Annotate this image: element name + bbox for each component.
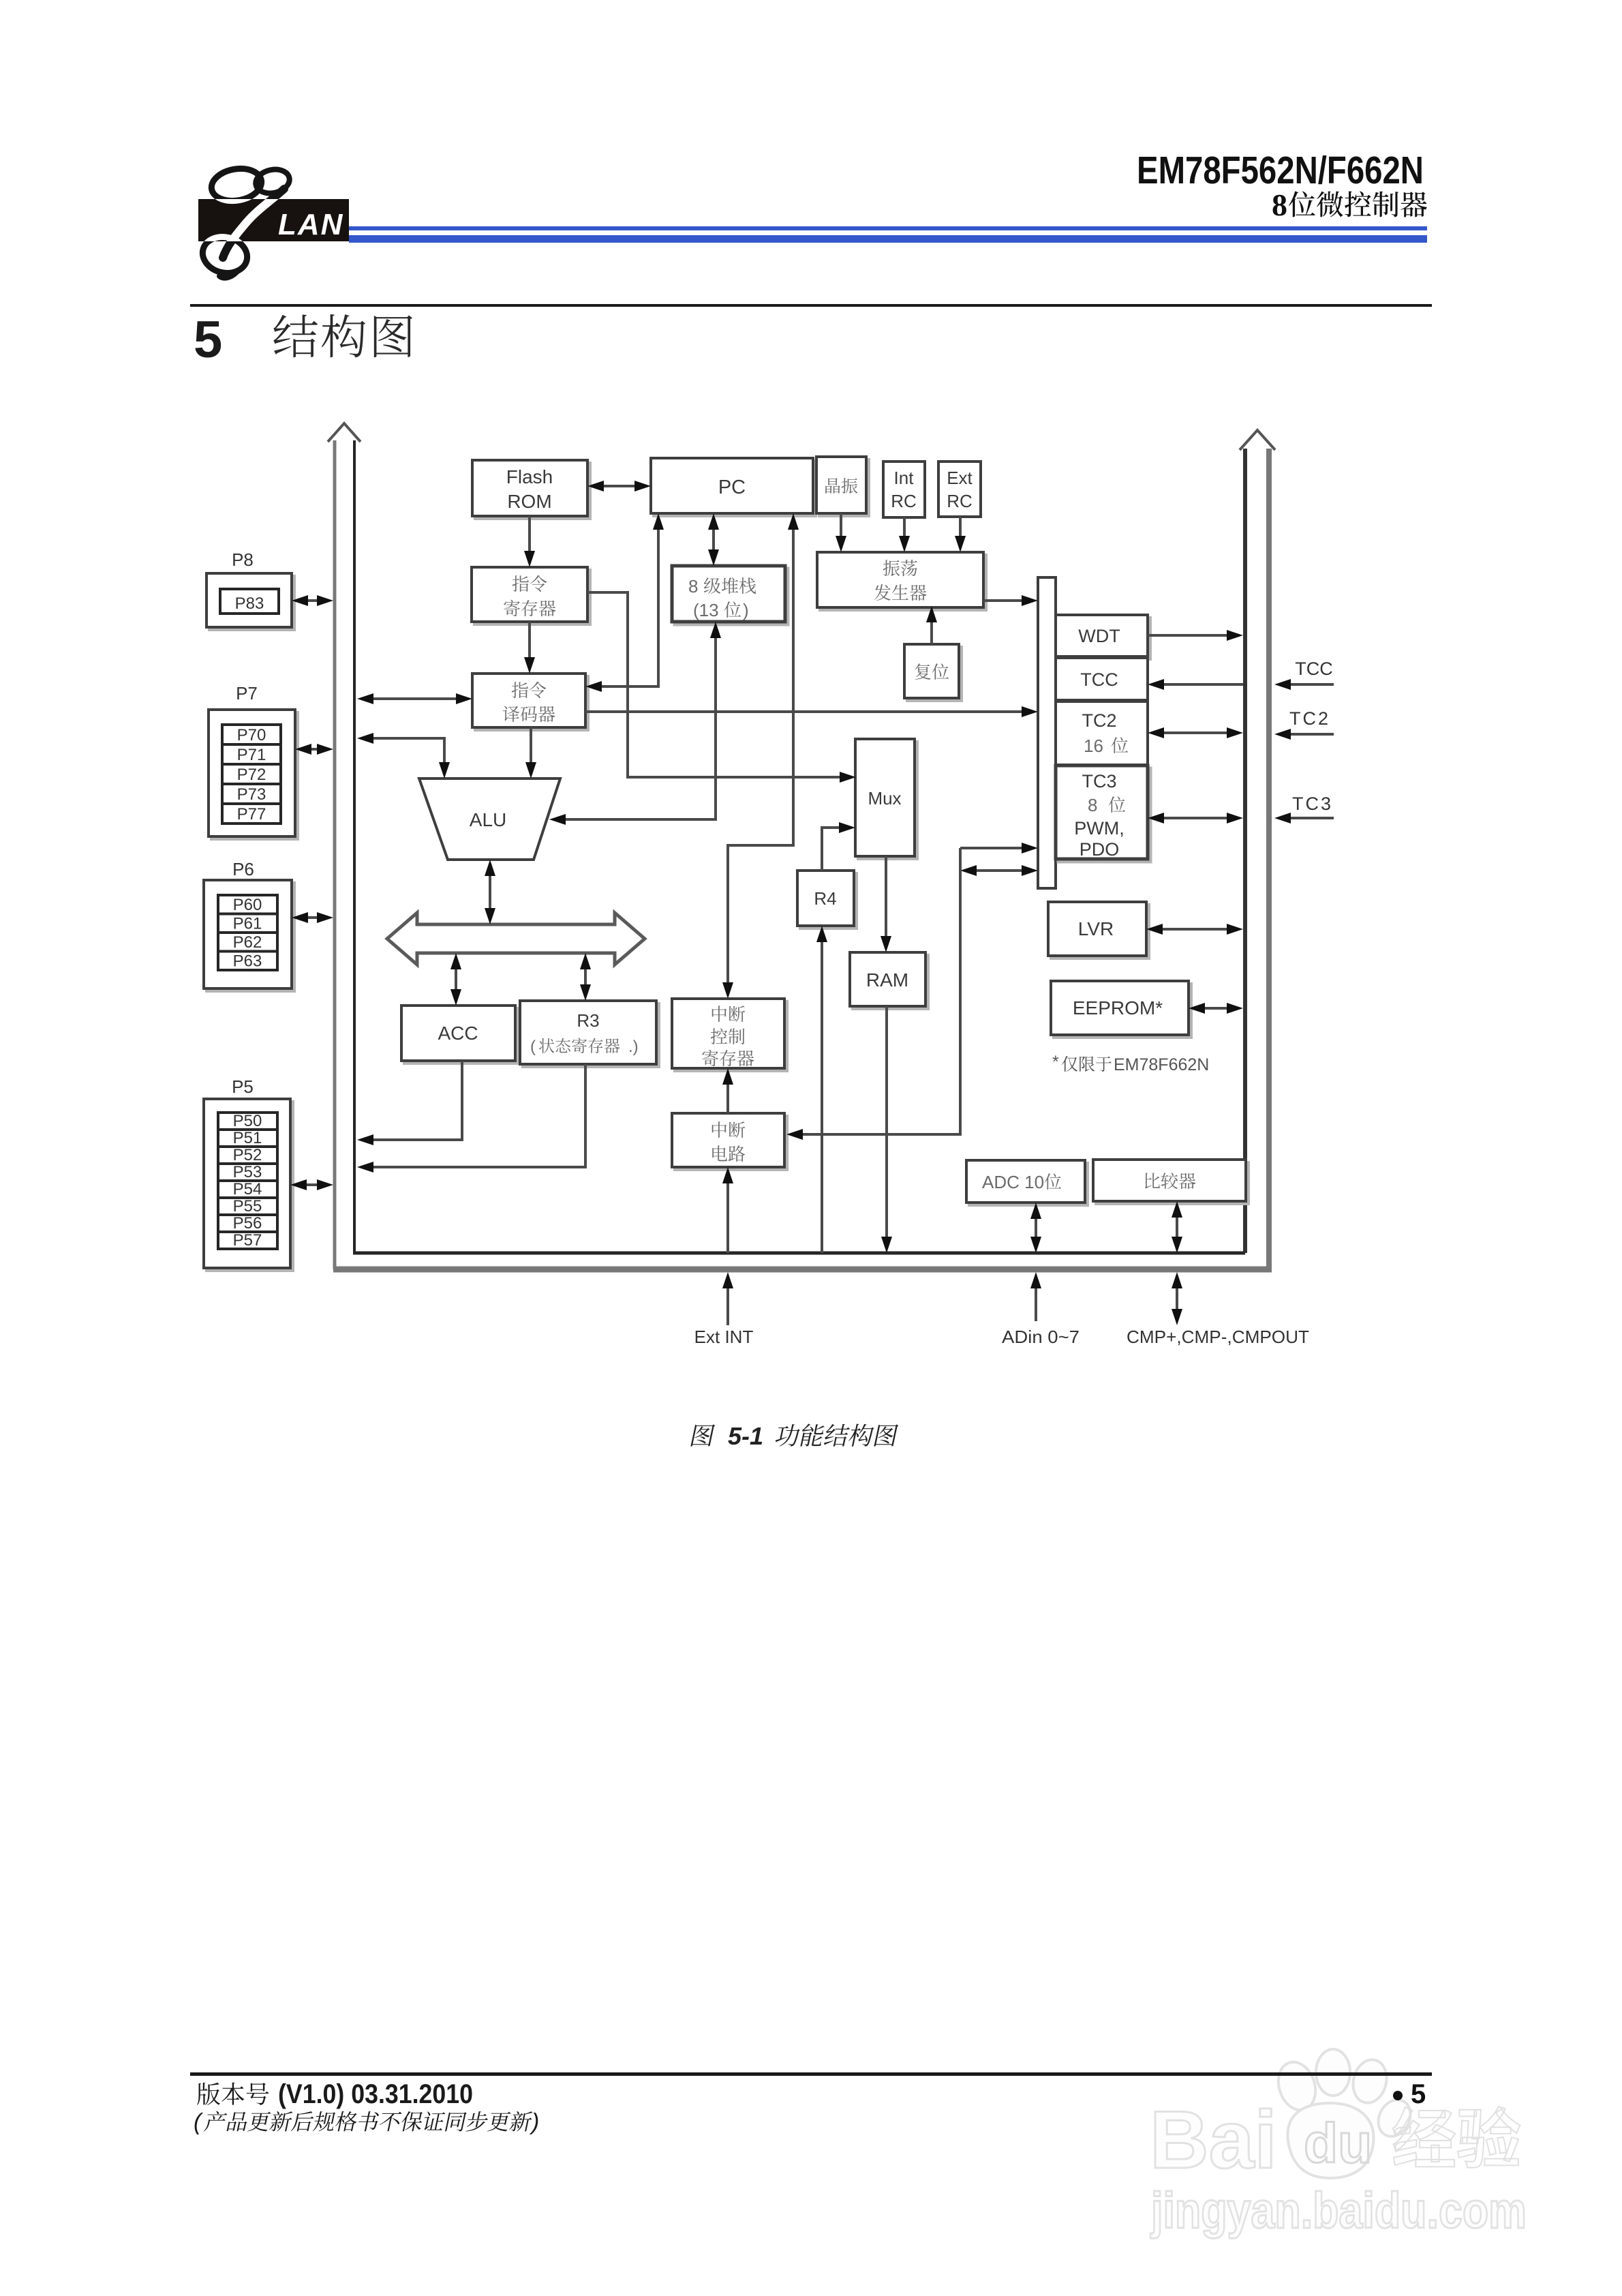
svg-text:EM78F662N: EM78F662N (1114, 1055, 1209, 1074)
note EEPROM only for EM78F662N (1052, 1053, 1209, 1074)
svg-text:ACC: ACC (438, 1023, 478, 1044)
wire Flash ROM -> instruction register (524, 516, 535, 567)
svg-text:PDO: PDO (1080, 839, 1120, 860)
label CMP+,CMP-,CMPOUT (1127, 1327, 1309, 1347)
svg-text:P83: P83 (235, 594, 264, 613)
block reset (fuwei) (904, 644, 962, 701)
svg-text:): ) (743, 600, 749, 620)
ELAN logo (198, 165, 349, 278)
block interrupt circuit (672, 1113, 787, 1170)
block EEPROM (1051, 981, 1191, 1038)
svg-text:P52: P52 (233, 1146, 262, 1164)
svg-text:Mux: Mux (868, 788, 901, 809)
svg-text:P63: P63 (233, 952, 262, 971)
wire LVR <-> right bus (1146, 924, 1243, 935)
internal data bus (horizontal double arrow) (387, 913, 645, 965)
svg-text:P56: P56 (233, 1214, 262, 1233)
block ACC (401, 1006, 518, 1063)
left data bus (vertical, arrow up) (328, 423, 361, 1269)
svg-text:du: du (1304, 2113, 1372, 2175)
block comparator (1093, 1160, 1249, 1204)
svg-text:P61: P61 (233, 915, 262, 933)
block 8-level stack (13-bit) (672, 566, 788, 624)
wire timer bus <-> interrupt link lower (960, 865, 1038, 876)
svg-text:P73: P73 (237, 785, 266, 804)
block Mux (855, 739, 917, 859)
wire EEPROM <-> right bus (1189, 1003, 1243, 1014)
wire timer bus <- interrupt link (960, 843, 1038, 854)
svg-text:P6: P6 (232, 859, 254, 879)
port P5 (P50-P57) (204, 1076, 293, 1271)
block Int RC (883, 462, 925, 517)
figure caption 5-1 (690, 1422, 899, 1450)
svg-text:5-1: 5-1 (728, 1422, 763, 1450)
footer rule (190, 2072, 1432, 2076)
page number bullet 5 (1393, 2079, 1426, 2109)
svg-text:P77: P77 (237, 805, 266, 824)
block oscillator generator (817, 552, 986, 610)
wire PC -> interrupt control register (routed) (722, 513, 799, 999)
wire Ext RC -> oscillator (955, 517, 966, 552)
svg-text:P55: P55 (233, 1197, 262, 1215)
svg-text:Bai: Bai (1150, 2094, 1277, 2186)
svg-text:RC: RC (947, 491, 973, 511)
svg-text:P60: P60 (233, 896, 262, 914)
svg-text:(: ( (530, 1038, 536, 1056)
wire P6 <-> left bus (292, 912, 333, 923)
wire PC <-> stack (708, 513, 719, 566)
wire left bus <- ALU top-left (routed) (357, 733, 450, 779)
wire decoder -> timer bus (585, 706, 1038, 717)
svg-text:(V1.0) 03.31.2010: (V1.0) 03.31.2010 (278, 2079, 473, 2109)
wire Ext INT -> interrupt circuit (722, 1167, 733, 1253)
wire crystal -> oscillator (836, 513, 846, 552)
svg-text:PC: PC (718, 477, 746, 498)
block TC3 8-bit PWM PDO (1056, 766, 1150, 862)
svg-text:P53: P53 (233, 1163, 262, 1181)
block PC (651, 458, 816, 516)
svg-text:ALU: ALU (470, 809, 506, 830)
block Flash ROM (472, 460, 590, 519)
wire comparator external stub CMP (1172, 1272, 1182, 1325)
svg-text:(13: (13 (693, 600, 719, 620)
wire ADC <-> bottom bus (1030, 1203, 1041, 1253)
svg-text:5: 5 (1411, 2079, 1426, 2109)
label TC2 (1289, 708, 1330, 729)
wire ADC external stub ADin (1030, 1272, 1041, 1321)
svg-text:TC2: TC2 (1289, 708, 1330, 729)
wire stack -> ALU (routed) (549, 622, 721, 825)
block interrupt control register (672, 999, 787, 1071)
wire interrupt link vertical -> interrupt circuit (786, 848, 960, 1140)
wire WDT -> right bus (1148, 630, 1243, 641)
svg-text:EM78F562N/F662N: EM78F562N/F662N (1137, 149, 1424, 192)
ALU trapezoid (419, 779, 560, 860)
label TC3 (1292, 794, 1333, 814)
wire TC2 external stub (1274, 729, 1334, 740)
svg-text:TCC: TCC (1080, 669, 1118, 690)
wire Ext INT external stub (722, 1272, 733, 1325)
svg-text:Int: Int (894, 468, 915, 488)
wire TC3 <-> right bus (1148, 813, 1243, 824)
wire bottom bus -> R4 (816, 926, 827, 1253)
baidu jingyan watermark (1150, 2049, 1527, 2239)
svg-text:PWM,: PWM, (1074, 818, 1124, 839)
wire instruction register -> decoder (524, 622, 535, 674)
block instruction decoder (472, 674, 588, 730)
svg-text:R4: R4 (814, 888, 836, 909)
wire reset -> oscillator (926, 606, 937, 644)
block Ext RC (938, 462, 981, 517)
svg-text:P5: P5 (232, 1076, 254, 1097)
svg-text:P72: P72 (237, 766, 266, 784)
svg-text:EEPROM*: EEPROM* (1073, 997, 1163, 1018)
svg-text:TC3: TC3 (1082, 771, 1116, 791)
port P8 / P83 (206, 549, 294, 630)
label TCC (1295, 659, 1333, 679)
svg-text:5: 5 (194, 311, 222, 369)
svg-text:8: 8 (1088, 795, 1097, 815)
wire R3 -> left bus (routed) (357, 1064, 585, 1173)
title EM78F562N/F662N (1137, 149, 1424, 192)
wire internal bus <-> R3 (580, 953, 591, 1001)
wire comparator <-> bottom bus (1172, 1201, 1182, 1253)
wire internal bus <-> ACC (450, 953, 461, 1006)
svg-text:jingyan.baidu.com: jingyan.baidu.com (1150, 2182, 1527, 2239)
svg-text:TCC: TCC (1295, 659, 1333, 679)
wire right bus -> TCC (1148, 679, 1243, 690)
wire decoder -> ALU (525, 727, 536, 779)
block R4 (797, 871, 857, 928)
wire RAM -> bottom bus (881, 1006, 892, 1253)
block LVR (1048, 902, 1149, 958)
svg-text:P62: P62 (233, 933, 262, 952)
svg-text:Flash: Flash (506, 466, 553, 487)
svg-text:P50: P50 (233, 1112, 262, 1130)
svg-text:ADin 0~7: ADin 0~7 (1002, 1327, 1080, 1347)
wire left bus <-> decoder (357, 693, 472, 704)
svg-text:Ext: Ext (947, 468, 973, 488)
section heading 5 (194, 311, 412, 369)
svg-text:*: * (1052, 1053, 1059, 1072)
wire Int RC -> oscillator (899, 517, 910, 552)
svg-text:RC: RC (891, 491, 917, 511)
wire PC -> decoder (routed) (585, 513, 664, 692)
svg-text:RAM: RAM (866, 969, 908, 991)
label ADin 0~7 (1002, 1327, 1080, 1347)
svg-text:P70: P70 (237, 726, 266, 744)
svg-text:ADC 10: ADC 10 (982, 1172, 1044, 1192)
svg-text:16: 16 (1084, 736, 1103, 756)
wire Mux -> RAM (881, 856, 891, 952)
wire R4 -> Mux (routed) (822, 822, 855, 871)
svg-text:8: 8 (688, 576, 698, 596)
wire ALU <-> internal bus (485, 860, 495, 924)
svg-text:LAN: LAN (278, 208, 343, 241)
wire TC2 <-> right bus (1148, 727, 1243, 738)
block ADC 10-bit (966, 1160, 1088, 1205)
svg-text:8: 8 (1272, 187, 1287, 222)
block instruction register (472, 567, 590, 624)
wire P5 <-> left bus (290, 1179, 333, 1190)
svg-text:ROM: ROM (507, 491, 551, 512)
svg-text:TC2: TC2 (1082, 710, 1116, 731)
port P6 (P60-P63) (204, 859, 294, 991)
svg-text:.): .) (628, 1038, 639, 1056)
block RAM (850, 952, 928, 1009)
svg-text:P71: P71 (237, 746, 266, 764)
block WDT (1056, 615, 1150, 659)
subtitle 8-bit microcontroller (1272, 187, 1427, 222)
wire ACC -> left bus (routed) (357, 1061, 462, 1145)
wire Flash ROM <-> PC (587, 481, 651, 492)
svg-text:P54: P54 (233, 1180, 262, 1198)
block TCC (1056, 658, 1148, 700)
wire TC3 external stub (1274, 813, 1334, 824)
block R3 status register (520, 1001, 659, 1067)
svg-text:(: ( (194, 2109, 204, 2135)
svg-text:TC3: TC3 (1292, 794, 1333, 814)
svg-text:P57: P57 (233, 1231, 262, 1250)
svg-text:WDT: WDT (1078, 626, 1120, 646)
svg-text:CMP+,CMP-,CMPOUT: CMP+,CMP-,CMPOUT (1127, 1327, 1309, 1347)
wire P7 <-> left bus (295, 744, 333, 755)
wire oscillator -> timer bus (983, 595, 1038, 606)
block TC2 16-bit (1056, 701, 1148, 765)
footer version line (197, 2079, 473, 2109)
blue header rule (349, 226, 1427, 243)
label Ext INT (694, 1327, 754, 1347)
section rule (190, 304, 1432, 307)
wire instruction register -> Mux (587, 592, 856, 783)
timer bus connector (narrow rect) (1038, 577, 1056, 888)
svg-text:P8: P8 (232, 549, 254, 570)
footer note line italic (194, 2109, 539, 2135)
wire TCC external stub (1274, 679, 1334, 690)
port P7 (P70-P77) (209, 683, 298, 839)
bottom bus lines (333, 1253, 1272, 1269)
svg-text:Ext INT: Ext INT (694, 1327, 754, 1347)
right data bus (vertical, arrow up) (1240, 430, 1275, 1269)
wire P8 <-> left bus (292, 595, 333, 606)
svg-text:P51: P51 (233, 1129, 262, 1147)
svg-text:LVR: LVR (1078, 918, 1114, 939)
block crystal osc (jingzhen) (816, 457, 869, 516)
svg-text:P7: P7 (236, 683, 258, 704)
svg-text:R3: R3 (577, 1010, 599, 1031)
wire interrupt circuit -> interrupt control register (722, 1068, 733, 1113)
